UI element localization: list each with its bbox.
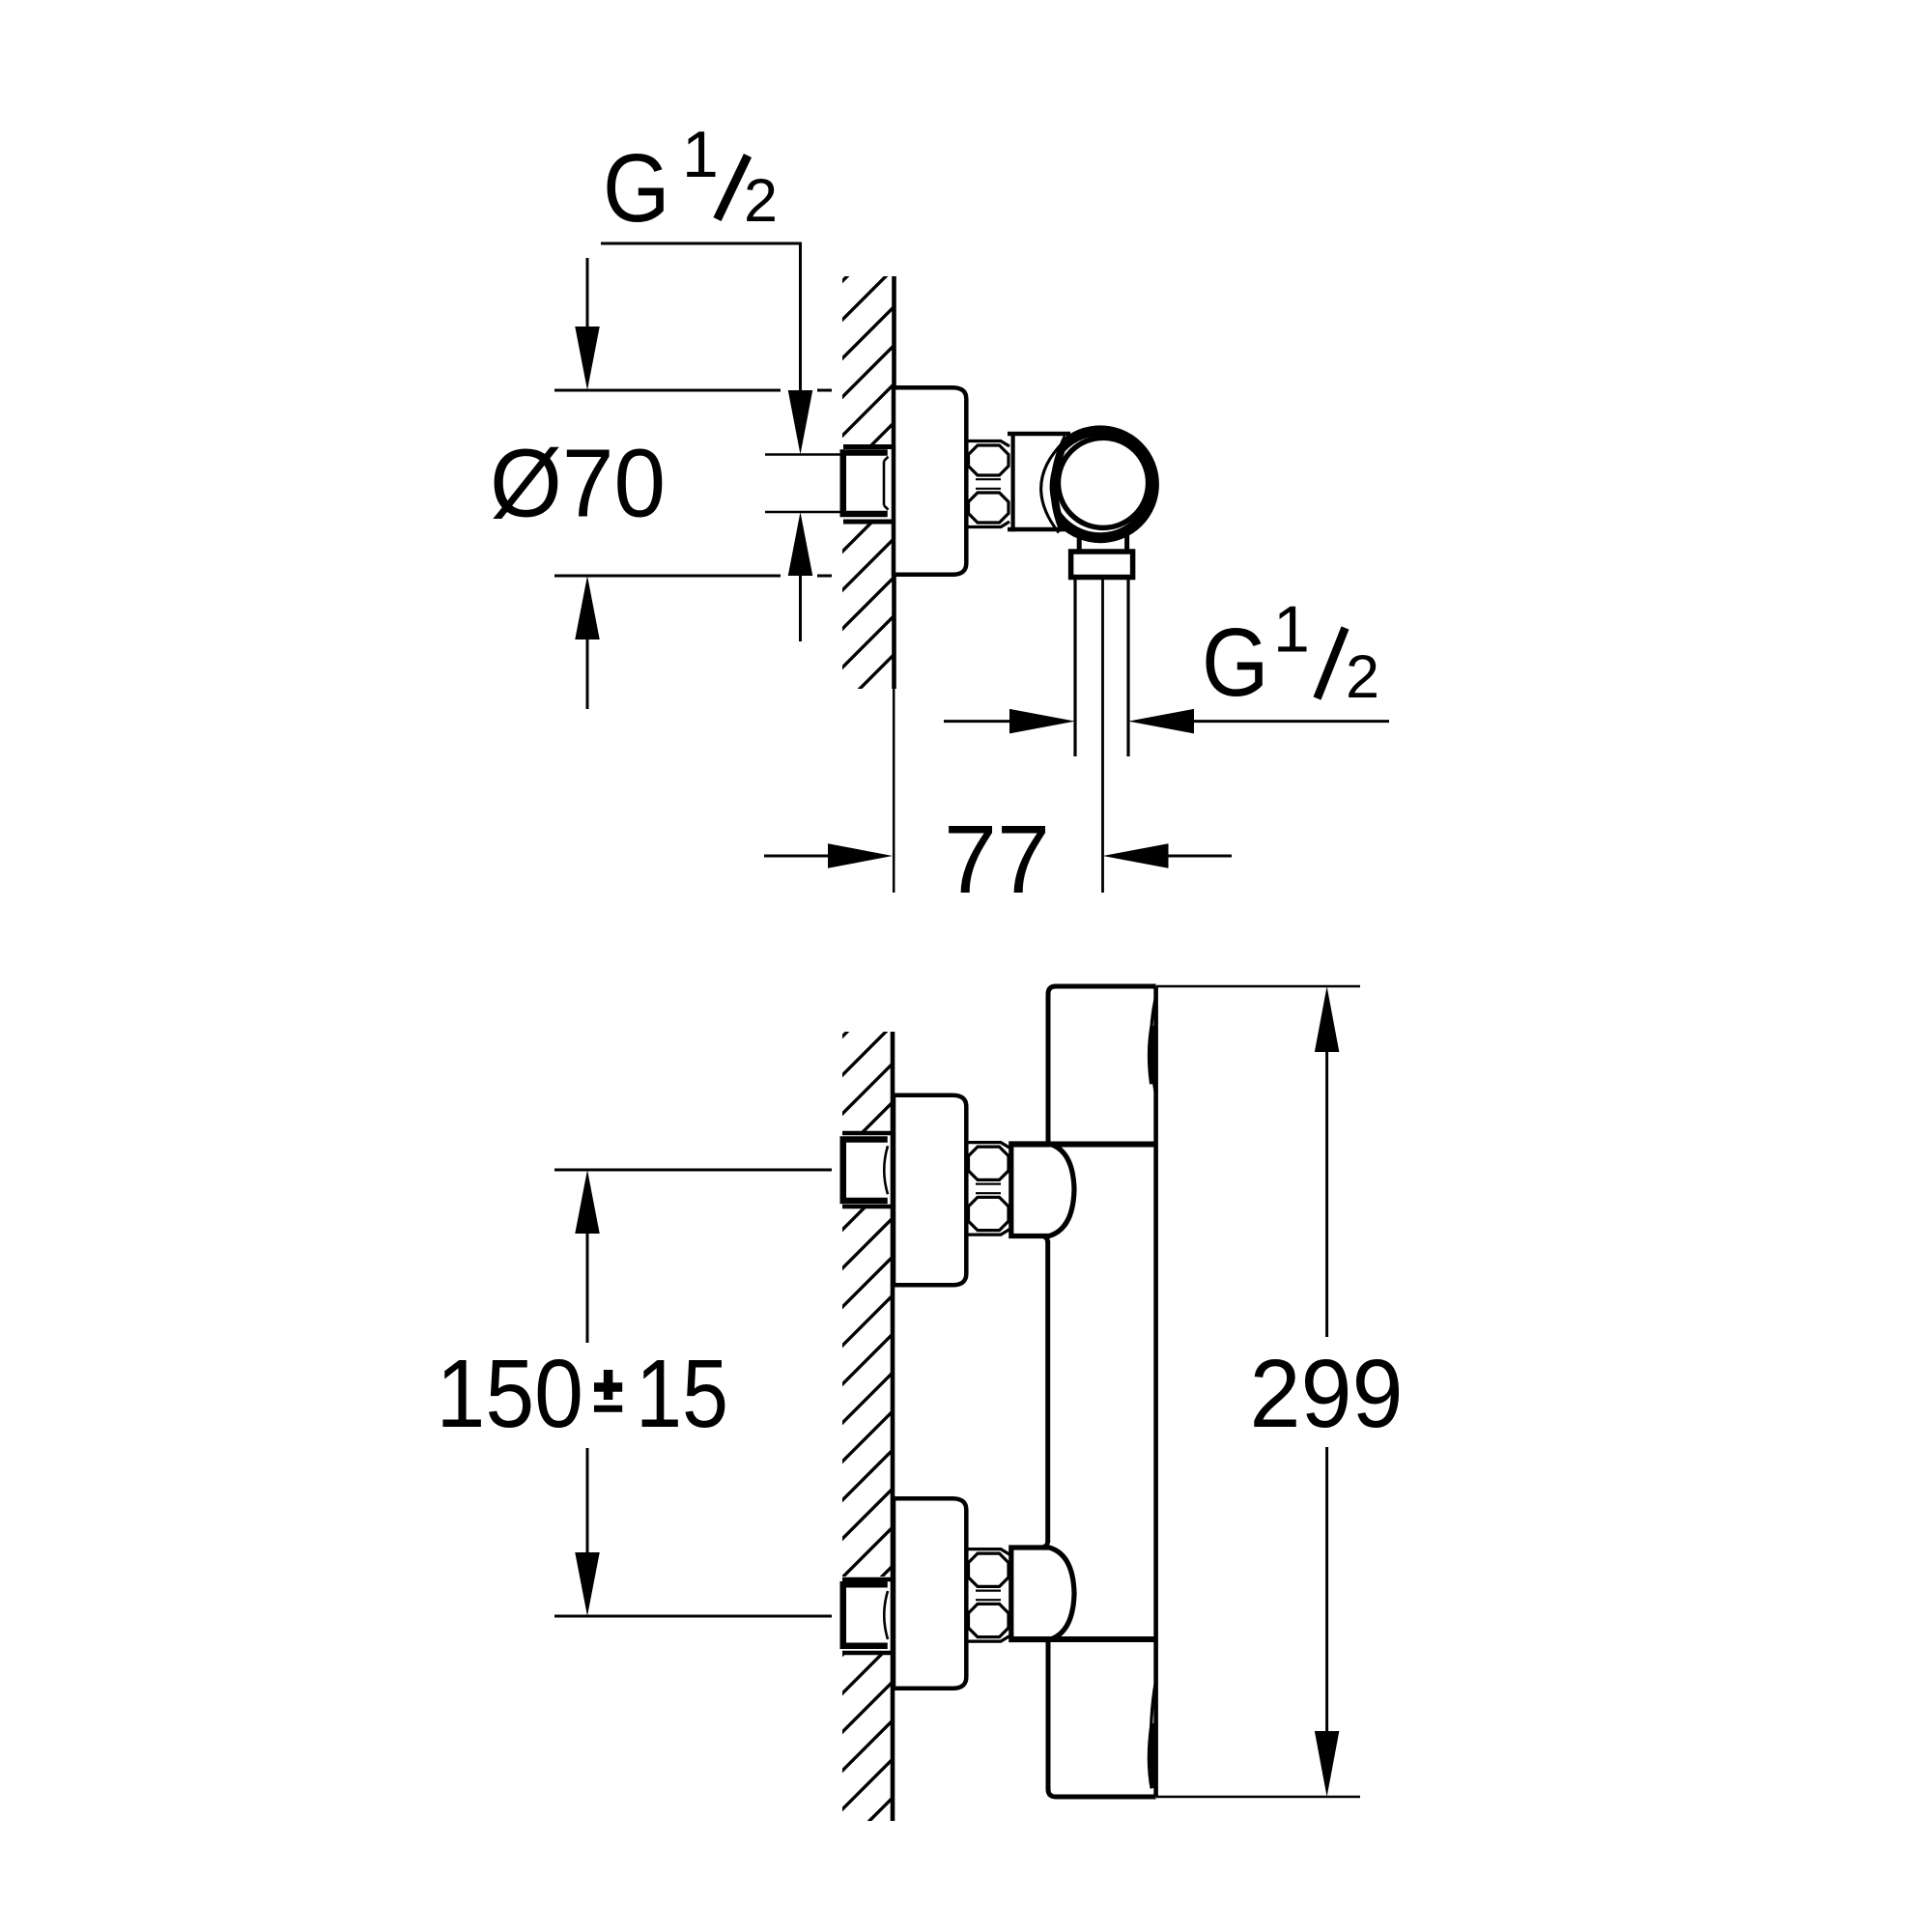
svg-text:77: 77: [944, 806, 1050, 914]
svg-text:Ø70: Ø70: [490, 430, 666, 538]
svg-text:299: 299: [1250, 1340, 1404, 1448]
svg-text:1: 1: [682, 118, 719, 191]
svg-text:1: 1: [1273, 593, 1310, 667]
svg-text:2: 2: [1346, 643, 1379, 711]
svg-text:G: G: [603, 134, 670, 242]
svg-text:150: 150: [437, 1340, 584, 1448]
svg-text:15: 15: [636, 1340, 728, 1448]
svg-text:G: G: [1202, 609, 1269, 717]
svg-text:2: 2: [744, 167, 778, 235]
